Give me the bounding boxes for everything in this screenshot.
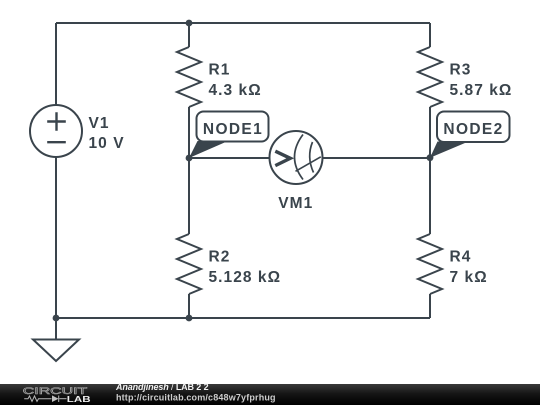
CircuitLab logo resistor-diode glyph xyxy=(24,396,66,403)
svg-text:4.3 kΩ: 4.3 kΩ xyxy=(209,82,262,99)
node NODE2 flag box xyxy=(437,112,510,143)
wire R2 bottom xyxy=(188,294,190,318)
svg-text:R1: R1 xyxy=(209,61,231,78)
svg-text:http://circuitlab.com/c848w7yf: http://circuitlab.com/c848w7yfprhug xyxy=(116,392,276,402)
resistor R2 xyxy=(177,234,201,294)
wire top from V1 to R3 xyxy=(56,22,430,24)
svg-text:10 V: 10 V xyxy=(89,135,125,152)
wire R4 bottom xyxy=(429,294,431,318)
wire node A to voltmeter xyxy=(189,157,270,159)
svg-text:LAB: LAB xyxy=(67,395,91,404)
ground xyxy=(33,318,79,361)
V1 minus sign xyxy=(47,141,66,143)
svg-text:5.128 kΩ: 5.128 kΩ xyxy=(209,269,282,286)
wire voltmeter to node B xyxy=(322,157,430,159)
wire left vertical V1 bottom xyxy=(55,157,57,318)
wire node B to R4 xyxy=(429,158,431,234)
svg-text:VM1: VM1 xyxy=(278,195,313,212)
svg-text:R3: R3 xyxy=(450,61,472,78)
V1 plus sign xyxy=(47,112,66,131)
wire left vertical V1 top xyxy=(55,23,57,105)
node NODE1 pointer xyxy=(189,141,228,158)
wire R1 top stub xyxy=(188,23,190,47)
wire node A to R2 xyxy=(188,158,190,234)
node A junction dot xyxy=(186,155,193,162)
wire bottom from ground to R4 xyxy=(56,317,430,319)
node B junction dot xyxy=(427,154,434,161)
wire R3 top stub xyxy=(429,23,431,47)
junction dot bottom left xyxy=(53,315,60,322)
junction dot top xyxy=(186,20,193,27)
node NODE1 flag box xyxy=(197,112,269,142)
node NODE2 pointer xyxy=(430,142,469,158)
wire R1 bottom to node A xyxy=(188,107,190,158)
voltmeter VM1 meter arcs xyxy=(295,135,314,180)
resistor R4 xyxy=(418,234,442,294)
svg-text:R2: R2 xyxy=(209,248,231,265)
svg-text:V1: V1 xyxy=(89,115,110,132)
svg-text:NODE2: NODE2 xyxy=(443,121,503,138)
svg-text:NODE1: NODE1 xyxy=(203,121,263,138)
resistor R1 xyxy=(177,47,201,107)
svg-text:Anandjinesh / LAB 2 2: Anandjinesh / LAB 2 2 xyxy=(115,382,209,392)
voltage source V1 circle xyxy=(30,105,82,157)
svg-text:5.87 kΩ: 5.87 kΩ xyxy=(450,82,513,99)
svg-text:7 kΩ: 7 kΩ xyxy=(450,269,488,286)
junction dot bottom middle xyxy=(186,315,193,322)
voltmeter VM1 plus mark xyxy=(275,151,290,165)
voltmeter VM1 circle xyxy=(270,131,323,184)
wire R3 bottom to node B xyxy=(429,107,431,158)
resistor R3 xyxy=(418,47,442,107)
voltmeter VM1 needle xyxy=(296,157,321,172)
svg-text:R4: R4 xyxy=(450,248,472,265)
